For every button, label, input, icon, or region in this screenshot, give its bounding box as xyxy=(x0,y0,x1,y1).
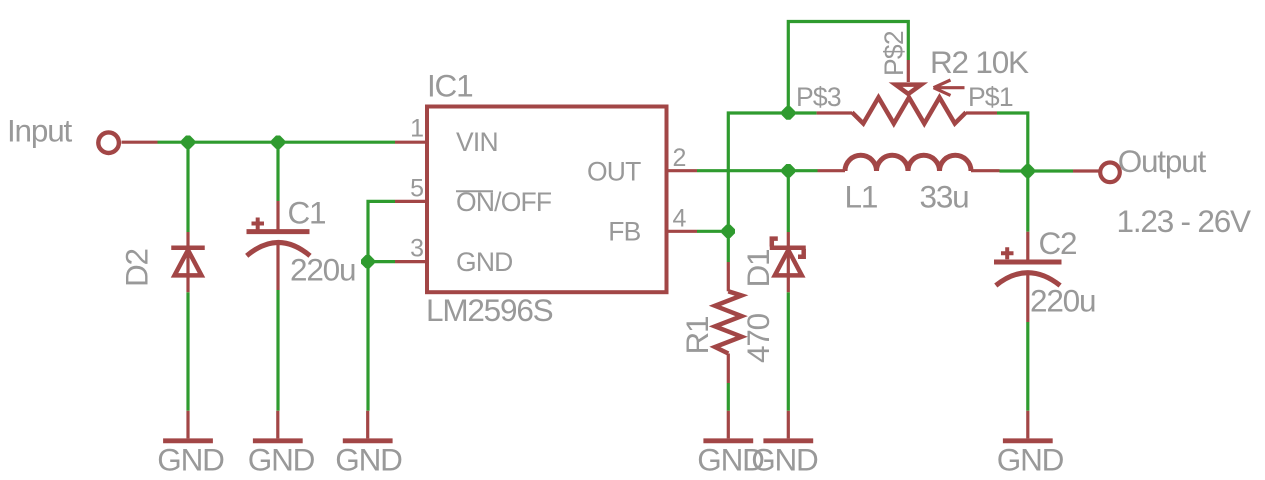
capacitor C2 xyxy=(996,247,1060,285)
pin name ON overline xyxy=(456,190,493,192)
svg-text:D1: D1 xyxy=(740,250,776,288)
svg-text:1: 1 xyxy=(410,114,424,142)
ground symbol IC xyxy=(345,411,390,441)
svg-text:GND: GND xyxy=(248,442,315,478)
junction OUT net at D1 xyxy=(782,164,795,177)
svg-text:Output: Output xyxy=(1118,143,1207,179)
svg-text:Input: Input xyxy=(7,113,73,149)
svg-text:1.23 - 26V: 1.23 - 26V xyxy=(1117,203,1252,239)
junction OUT net at C2 / P$1 xyxy=(1021,164,1034,177)
svg-text:GND: GND xyxy=(456,247,513,277)
svg-text:4: 4 xyxy=(673,204,687,232)
svg-text:LM2596S: LM2596S xyxy=(426,292,553,328)
ground symbol C1 xyxy=(255,411,300,441)
R1 bottom pin stub xyxy=(727,354,730,384)
svg-text:220u: 220u xyxy=(290,252,355,288)
svg-text:R1: R1 xyxy=(679,317,715,355)
wire D1 to GND xyxy=(787,292,790,411)
svg-text:C1: C1 xyxy=(288,195,326,231)
D1 pin wire vertical xyxy=(787,232,790,292)
svg-text:GND: GND xyxy=(157,442,224,478)
svg-text:470: 470 xyxy=(740,313,776,363)
svg-text:3: 3 xyxy=(410,235,424,263)
output terminal red stub xyxy=(1073,169,1099,172)
wire OUT junction down to D1 xyxy=(787,171,790,232)
pin 1 VIN stub xyxy=(395,141,427,144)
svg-text:OUT: OUT xyxy=(587,157,641,187)
pin 5 ON/OFF stub xyxy=(395,200,427,203)
svg-text:R2 10K: R2 10K xyxy=(930,44,1029,80)
ground symbol C2 xyxy=(1005,411,1050,441)
C2 top pin stub xyxy=(1026,232,1029,262)
R1 top pin stub xyxy=(727,262,730,291)
svg-text:P$1: P$1 xyxy=(968,82,1013,112)
svg-text:GND: GND xyxy=(335,442,402,478)
pot P$2 wiper pin stub xyxy=(907,60,910,82)
svg-text:IC1: IC1 xyxy=(427,68,472,104)
junction on input net at D2 xyxy=(181,136,194,149)
capacitor C1 xyxy=(247,218,310,256)
wire C1 to GND xyxy=(276,290,279,411)
pot P$3 pin stub xyxy=(817,111,852,114)
svg-text:VIN: VIN xyxy=(456,127,498,157)
wire D2 to GND xyxy=(186,292,189,411)
ground symbol D2 xyxy=(166,411,211,441)
diode D2 xyxy=(174,248,203,276)
pin 4 FB stub xyxy=(667,230,698,233)
wire D2 drop from input net xyxy=(186,142,189,232)
wire R1 to GND xyxy=(727,383,730,411)
C2 bottom pin stub xyxy=(1026,273,1029,322)
wire C2 to GND xyxy=(1026,322,1029,411)
L1 left pin stub xyxy=(818,169,846,172)
svg-text:D2: D2 xyxy=(119,249,155,287)
junction pot P$3 net xyxy=(782,106,795,119)
pin 2 OUT stub xyxy=(667,169,698,172)
L1 right pin stub xyxy=(971,169,1000,172)
svg-text:33u: 33u xyxy=(920,178,969,214)
wire pin5 ON/OFF to pin3 GND net xyxy=(368,201,395,261)
junction on input net at C1 xyxy=(271,136,284,149)
D2 pin wire vertical xyxy=(186,232,189,292)
pot P$1 pin stub xyxy=(966,111,997,114)
svg-text:L1: L1 xyxy=(845,178,878,214)
C1 top pin stub xyxy=(276,201,279,232)
inductor L1 xyxy=(845,155,971,171)
wire pot P$1 down to OUT net xyxy=(997,113,1028,171)
ground symbol R1 xyxy=(706,411,751,441)
wire input terminal red stub xyxy=(122,141,158,144)
IC1 LM2596S box xyxy=(427,107,667,293)
wire FB net to pot P$3 xyxy=(697,113,817,231)
svg-text:GND: GND xyxy=(751,442,818,478)
C1 bottom pin stub xyxy=(276,243,279,290)
svg-text:P$3: P$3 xyxy=(796,82,841,112)
wire pin3 net to GND xyxy=(366,262,369,411)
svg-text:GND: GND xyxy=(997,442,1064,478)
resistor R1 xyxy=(715,291,742,353)
wire C1 drop from input net xyxy=(276,142,279,201)
svg-text:FB: FB xyxy=(608,217,640,247)
svg-text:2: 2 xyxy=(673,144,687,172)
pin 3 GND stub xyxy=(395,260,427,263)
junction FB net xyxy=(722,225,735,238)
wire FB junction down to R1 xyxy=(727,231,730,262)
wire input net horizontal xyxy=(158,141,396,144)
potentiometer R2 wiper triangle xyxy=(896,85,922,94)
potentiometer R2 zigzag xyxy=(852,98,966,124)
input terminal circle xyxy=(98,132,119,153)
wire OUT net xyxy=(697,169,818,172)
svg-text:5: 5 xyxy=(410,174,424,202)
svg-text:P$2: P$2 xyxy=(879,31,909,76)
svg-text:220u: 220u xyxy=(1030,283,1095,319)
diode D1 schottky xyxy=(772,239,804,276)
output terminal circle xyxy=(1100,163,1120,183)
wire P$2 bypass top xyxy=(788,22,908,114)
svg-text:C2: C2 xyxy=(1039,225,1077,261)
ground symbol D1 xyxy=(766,411,811,441)
potentiometer R2 trimmer arrow xyxy=(934,80,965,95)
junction pin3 GND net xyxy=(361,255,374,268)
wire C2 top drop xyxy=(1026,171,1029,232)
wire L1 right to output xyxy=(1000,169,1074,172)
